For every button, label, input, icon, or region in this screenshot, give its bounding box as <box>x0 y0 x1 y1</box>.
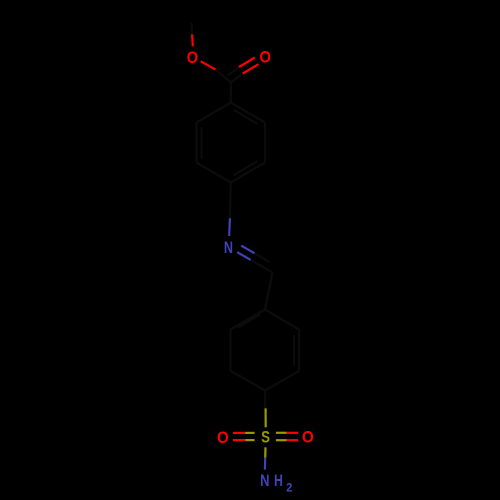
bond O_ester to carbonyl C (carbon half) <box>216 70 231 83</box>
C=O double bond second line carbon half <box>227 67 239 76</box>
N=C imine double bond main line nitrogen half <box>237 252 251 260</box>
ring2 double bond inner line B-C <box>293 335 295 366</box>
ring1 double bond inner line c-d <box>233 161 257 175</box>
S=O left double bond upper line sulfur half <box>245 432 254 434</box>
ring1 bond b-c <box>264 123 266 163</box>
ring2 bond A-B <box>265 310 299 330</box>
bond ring2 bottom to S (carbon half) <box>264 391 267 409</box>
N=C imine double bond main line carbon half <box>251 260 273 273</box>
bond O_ester to carbonyl C (oxygen half) <box>201 61 216 69</box>
C=O double bond main line oxygen half <box>243 64 259 73</box>
svg-text:H: H <box>274 473 283 491</box>
ring2 double bond inner line D-E <box>237 374 264 389</box>
ring1 double bond inner line a-b <box>233 110 257 124</box>
S=O right double bond lower line oxygen half <box>287 439 299 441</box>
ring2 bond C-D <box>265 371 299 391</box>
methyl CH3 bond (carbon half) <box>190 23 193 35</box>
svg-text:N: N <box>224 240 233 258</box>
svg-text:O: O <box>260 49 271 67</box>
S=O right double bond upper line sulfur half <box>276 432 287 434</box>
methyl CH3 bond (oxygen half) <box>191 34 194 46</box>
svg-text:O: O <box>302 429 314 447</box>
svg-text:2: 2 <box>286 481 293 494</box>
C=O double bond second line oxygen half <box>239 58 255 68</box>
S=O right double bond upper line oxygen half <box>287 432 299 434</box>
bond carbonyl C to ring1 top <box>230 83 233 103</box>
ring1 bond d-e <box>197 163 231 183</box>
ring1 bond e-f <box>195 123 197 163</box>
S=O left double bond lower line sulfur half <box>245 439 254 441</box>
bond CH to ring2 top <box>265 273 273 310</box>
bond ring1 bottom to N (nitrogen half) <box>228 218 231 236</box>
N=C imine double bond second line carbon half <box>255 253 270 262</box>
bond ring2 bottom to S (sulfur half) <box>265 408 267 427</box>
S=O left double bond upper line oxygen half <box>233 432 245 434</box>
ring1 bond c-d <box>231 163 265 183</box>
ring2 bond F-A <box>231 310 265 330</box>
ring2 double bond inner line F-A <box>238 315 261 328</box>
ring1 double bond inner line e-f <box>201 128 203 159</box>
svg-text:N: N <box>260 473 269 491</box>
ring1 bond f-a <box>197 103 231 123</box>
S=O right double bond lower line sulfur half <box>276 439 287 441</box>
S=O left double bond lower line oxygen half <box>233 439 245 441</box>
C=O double bond main line carbon half <box>231 74 243 83</box>
bond S to NH2 (nitrogen half) <box>264 457 267 469</box>
svg-text:O: O <box>187 49 198 67</box>
N=C imine double bond second line nitrogen half <box>241 246 255 254</box>
ring2 bond B-C <box>298 330 300 372</box>
svg-text:S: S <box>261 430 270 447</box>
bond ring1 bottom to N (carbon half) <box>229 183 232 219</box>
ring1 bond a-b <box>231 103 265 123</box>
ring2 bond D-E <box>231 371 265 391</box>
ring2 bond E-F <box>229 330 231 372</box>
svg-text:O: O <box>217 429 229 447</box>
bond S to NH2 (sulfur half) <box>264 447 266 458</box>
